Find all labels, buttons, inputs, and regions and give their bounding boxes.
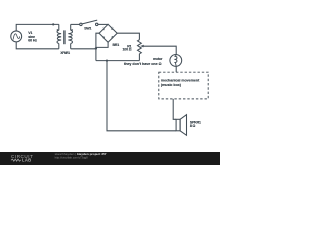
wire SW1 to BR1 top corner	[98, 23, 108, 25]
wire top rail V1 to XFMR1	[16, 24, 59, 31]
bridge diode bottom-right	[112, 36, 114, 39]
wire XFMR1 secondary bottom rail	[71, 48, 96, 50]
wire R1 bottom lead	[138, 54, 140, 61]
diode bridge BR1	[99, 24, 117, 42]
phase dot left	[57, 29, 59, 31]
transformer XFMR1	[57, 24, 73, 48]
junction node bottom loop	[106, 60, 108, 62]
label V1 value	[28, 31, 37, 43]
label mechanical movement	[161, 79, 200, 87]
junction dot XFMR1 primary top	[52, 23, 54, 25]
svg-text:8 Ω: 8 Ω	[190, 124, 196, 128]
bridge diode top-right	[111, 27, 113, 30]
wire BR1 right corner to R1 top	[117, 33, 139, 40]
voltage source V1	[11, 31, 22, 42]
wire XFMR1 secondary top to SW1	[71, 23, 80, 25]
wire R1 wiper to motor	[143, 46, 177, 54]
motor M1	[170, 55, 182, 67]
svg-text:they don't have one Ω: they don't have one Ω	[124, 62, 162, 66]
wire BR1 bottom corner jog to left vertical	[96, 42, 108, 47]
svg-text:SW1: SW1	[84, 27, 91, 31]
wire bottom loop node to speaker	[107, 61, 176, 131]
wire box bottom to speaker top terminal	[173, 99, 176, 119]
label R1 value	[123, 44, 132, 51]
svg-text:motor: motor	[153, 57, 163, 61]
label SPKR1 value	[190, 121, 201, 129]
svg-text:XFMR1: XFMR1	[60, 51, 70, 55]
svg-text:LAB: LAB	[22, 158, 32, 163]
switch SW1	[80, 20, 98, 25]
R1 wiper arrow	[140, 45, 144, 48]
wire BR1 left corner down to node row	[96, 33, 99, 60]
wire bottom rail V1 to XFMR1	[16, 42, 59, 49]
resistor R1 (rheostat)	[138, 40, 142, 54]
speaker SPKR1	[176, 115, 186, 136]
bridge diode bottom-left	[102, 37, 105, 39]
svg-text:BR1: BR1	[113, 43, 120, 47]
svg-text:(music box): (music box)	[161, 83, 181, 87]
svg-text:100 Ω: 100 Ω	[123, 48, 132, 52]
phase dot right	[71, 29, 73, 31]
wire node row to R1 bottom	[96, 60, 139, 62]
svg-text:http://circuitlab.com/c73qg8: http://circuitlab.com/c73qg8	[55, 156, 88, 160]
mechanical movement dashed box	[159, 72, 208, 99]
junction node secondary bottom	[95, 47, 97, 49]
wire motor to mechanical box	[175, 66, 177, 72]
svg-text:60 Hz: 60 Hz	[28, 39, 37, 43]
CircuitLab logo	[11, 154, 33, 163]
footer bar	[0, 152, 220, 165]
bridge diode top-left	[102, 27, 104, 30]
